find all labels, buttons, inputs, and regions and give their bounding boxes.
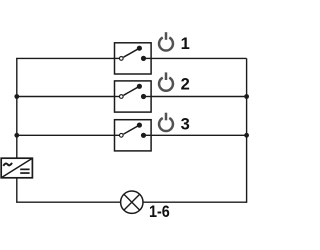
svg-text:1: 1 (181, 35, 190, 53)
junction right bus / branch 2 (244, 94, 249, 99)
power icon 3 (159, 113, 173, 131)
wire left bus lower vertical (16, 178, 18, 203)
wire bottom horizontal (16, 201, 247, 203)
junction left bus / branch 3 (14, 133, 19, 138)
wire branch 3 horizontal (17, 134, 247, 136)
wire branch 1 horizontal (16, 57, 247, 59)
svg-text:1-6: 1-6 (149, 203, 170, 221)
wire right bus vertical (246, 58, 248, 203)
lamp E1 (121, 191, 143, 213)
power icon 1 (159, 32, 173, 50)
junction left bus / branch 2 (14, 94, 19, 99)
switch S3 (115, 120, 152, 151)
AC/DC power supply U1 (1, 158, 32, 178)
wire left bus vertical (16, 58, 18, 158)
svg-text:2: 2 (181, 75, 190, 93)
switch S1 (115, 43, 152, 74)
switch S2 (115, 81, 152, 112)
power icon 2 (159, 72, 173, 90)
junction right bus / branch 3 (244, 133, 249, 138)
svg-text:3: 3 (181, 115, 190, 133)
wire branch 2 horizontal (17, 96, 247, 98)
